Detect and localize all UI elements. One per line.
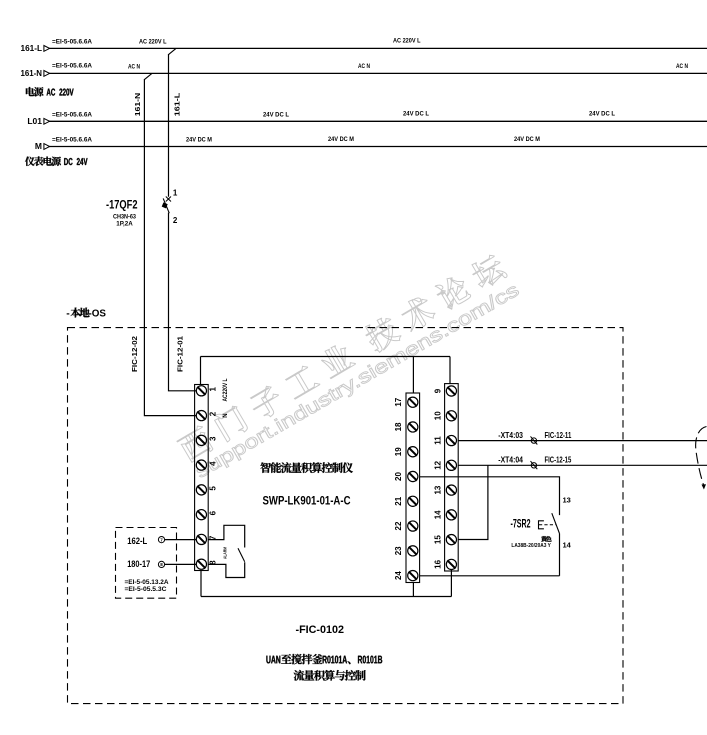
svg-text:22: 22 — [394, 521, 403, 530]
svg-text:=EI-5-05.13.2A: =EI-5-05.13.2A — [125, 580, 170, 586]
svg-text:CH3N-63: CH3N-63 — [113, 215, 137, 221]
svg-text:=EI-5-05.6.6A: =EI-5-05.6.6A — [52, 138, 93, 144]
svg-text:M: M — [35, 141, 42, 151]
svg-text:18: 18 — [394, 422, 403, 431]
svg-text:14: 14 — [434, 510, 443, 519]
svg-text:3: 3 — [209, 436, 218, 441]
svg-text:24V DC L: 24V DC L — [263, 111, 289, 118]
svg-text:N: N — [223, 413, 229, 417]
svg-text:LA38B-20/20A3 Y: LA38B-20/20A3 Y — [511, 543, 551, 549]
svg-text:7: 7 — [160, 537, 163, 542]
svg-text:5: 5 — [209, 486, 218, 491]
svg-text:8: 8 — [209, 560, 218, 565]
svg-text:14: 14 — [563, 541, 572, 550]
svg-text:161-L: 161-L — [21, 43, 43, 53]
svg-text:FIC-12-02: FIC-12-02 — [130, 336, 139, 372]
svg-text:-: - — [66, 308, 70, 320]
svg-text:=EI-5-05.6.6A: =EI-5-05.6.6A — [52, 112, 93, 118]
svg-text:AC N: AC N — [128, 64, 140, 71]
svg-text:20: 20 — [394, 472, 403, 481]
svg-text:L01: L01 — [27, 116, 42, 126]
svg-text:4: 4 — [209, 461, 218, 466]
svg-text:support.industry.siemens.com/c: support.industry.siemens.com/cs — [192, 280, 523, 483]
svg-text:17: 17 — [394, 397, 403, 406]
svg-text:180-17: 180-17 — [127, 559, 150, 570]
svg-text:AC220V L: AC220V L — [223, 378, 229, 401]
svg-text:19: 19 — [394, 447, 403, 456]
svg-text:FIC-12-15: FIC-12-15 — [545, 455, 572, 465]
svg-text:24V DC L: 24V DC L — [403, 111, 429, 118]
svg-text:FIC-12-11: FIC-12-11 — [545, 430, 572, 440]
svg-text:SWP-LK901-01-A-C: SWP-LK901-01-A-C — [263, 496, 351, 508]
svg-text:161-L: 161-L — [172, 92, 181, 116]
svg-text:=EI-5-05.5.3C: =EI-5-05.5.3C — [125, 587, 168, 593]
svg-text:161-N: 161-N — [21, 68, 43, 78]
svg-text:AC N: AC N — [358, 63, 370, 70]
svg-text:AC 220V L: AC 220V L — [393, 38, 421, 45]
svg-text:16: 16 — [434, 559, 443, 568]
svg-text:2: 2 — [173, 216, 178, 225]
svg-text:10: 10 — [434, 411, 443, 420]
svg-text:24V DC M: 24V DC M — [186, 136, 212, 143]
svg-text:8: 8 — [160, 562, 163, 567]
svg-text:-OS: -OS — [89, 308, 107, 320]
svg-text:23: 23 — [394, 546, 403, 555]
svg-text:FIC-12-01: FIC-12-01 — [176, 336, 185, 372]
svg-text:24V DC M: 24V DC M — [328, 136, 354, 143]
svg-text:-7SR2: -7SR2 — [511, 519, 531, 531]
svg-text:21: 21 — [394, 496, 403, 505]
svg-text:2: 2 — [209, 411, 218, 416]
svg-text:24V DC L: 24V DC L — [589, 111, 615, 118]
svg-text:-XT4:04: -XT4:04 — [498, 455, 523, 465]
svg-text:1P,2A: 1P,2A — [116, 222, 133, 228]
svg-text:ALARM: ALARM — [223, 547, 229, 559]
svg-text:13: 13 — [563, 495, 571, 504]
svg-text:161-N: 161-N — [133, 93, 142, 117]
svg-text:15: 15 — [434, 535, 443, 544]
svg-text:7: 7 — [209, 535, 218, 540]
svg-text:12: 12 — [434, 460, 443, 469]
svg-text:9: 9 — [434, 388, 443, 393]
svg-text:24V DC M: 24V DC M — [514, 136, 540, 143]
svg-text:1: 1 — [173, 189, 178, 198]
svg-text:-XT4:03: -XT4:03 — [498, 430, 523, 440]
svg-text:1: 1 — [209, 387, 218, 392]
svg-text:AC 220V L: AC 220V L — [139, 38, 167, 45]
svg-text:-FIC-0102: -FIC-0102 — [296, 624, 345, 636]
svg-text:11: 11 — [434, 436, 443, 445]
svg-text:-17QF2: -17QF2 — [106, 200, 138, 212]
svg-text:AC N: AC N — [676, 63, 688, 70]
svg-text:=EI-5-05.6.6A: =EI-5-05.6.6A — [52, 64, 93, 70]
svg-text:162-L: 162-L — [127, 536, 147, 547]
svg-text:13: 13 — [434, 485, 443, 494]
svg-text:24: 24 — [394, 571, 403, 580]
svg-text:6: 6 — [209, 510, 218, 515]
svg-text:=EI-5-05.6.6A: =EI-5-05.6.6A — [52, 39, 93, 45]
